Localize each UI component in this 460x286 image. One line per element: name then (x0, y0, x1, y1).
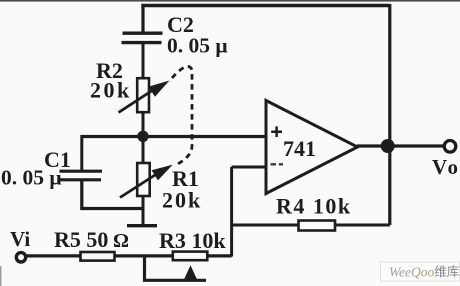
wire C2 to R2 (142, 43, 145, 79)
svg-text:R5 50: R5 50 (54, 227, 108, 252)
wire right vertical (top wire down to Vo node) (388, 4, 391, 146)
svg-text:R4 10k: R4 10k (276, 194, 352, 219)
ground terminal bar (127, 224, 157, 227)
wire main horizontal to op-amp + input (81, 135, 267, 138)
wire C1 branch left vertical (80, 135, 83, 170)
wire inverting vertical down (230, 167, 233, 257)
wire top horizontal (Vo node to C2 branch) (141, 4, 389, 8)
node junction (R1/R2/C1/+input) (137, 131, 148, 142)
wiper arrow of R3 (184, 265, 197, 280)
resistor R3 (potentiometer) (173, 252, 208, 261)
svg-text:0. 05 μ: 0. 05 μ (1, 166, 62, 190)
watermark WeeQoo (381, 262, 460, 281)
capacitor C2 (122, 33, 163, 42)
wire R3 wiper loop (145, 257, 207, 281)
resistor R5 (81, 252, 115, 261)
dashed gang link between R2 and R1 wipers (172, 66, 192, 166)
svg-text:Ω: Ω (113, 230, 129, 252)
svg-text:0. 05 μ: 0. 05 μ (167, 34, 228, 58)
scan artifact top edge (0, 0, 460, 2)
scan artifact left edge (0, 266, 1, 286)
svg-text:R3 10k: R3 10k (159, 228, 226, 253)
resistor R1 (variable) (120, 163, 173, 198)
resistor R2 (variable) (119, 78, 170, 112)
wire inverting input (232, 166, 266, 169)
wire bottom horizontal (27, 254, 232, 257)
svg-text:Vi: Vi (10, 227, 30, 251)
svg-text:WeeQoo维库: WeeQoo维库 (389, 264, 459, 280)
wire R1 to bottom terminal (142, 196, 145, 225)
wire op-amp output (357, 144, 445, 147)
resistor R4 (299, 221, 336, 231)
wire C1 bottom loop (82, 181, 145, 209)
wire left vertical top (corner down to C2) (141, 4, 144, 32)
svg-text:20k: 20k (162, 188, 202, 213)
op-amp U1 741 (266, 101, 358, 194)
terminal Vi (16, 253, 25, 262)
svg-text:o: o (448, 155, 459, 179)
capacitor C1 (59, 171, 103, 180)
node Vo junction (381, 139, 395, 153)
svg-text:V: V (432, 155, 447, 179)
terminal Vo (444, 141, 456, 153)
wire Vo node down to R4 (388, 146, 391, 225)
wire R4 feedback horizontal (232, 224, 390, 227)
wire R2 to junction node (142, 112, 145, 164)
svg-text:741: 741 (283, 136, 316, 161)
svg-text:20k: 20k (90, 78, 132, 103)
